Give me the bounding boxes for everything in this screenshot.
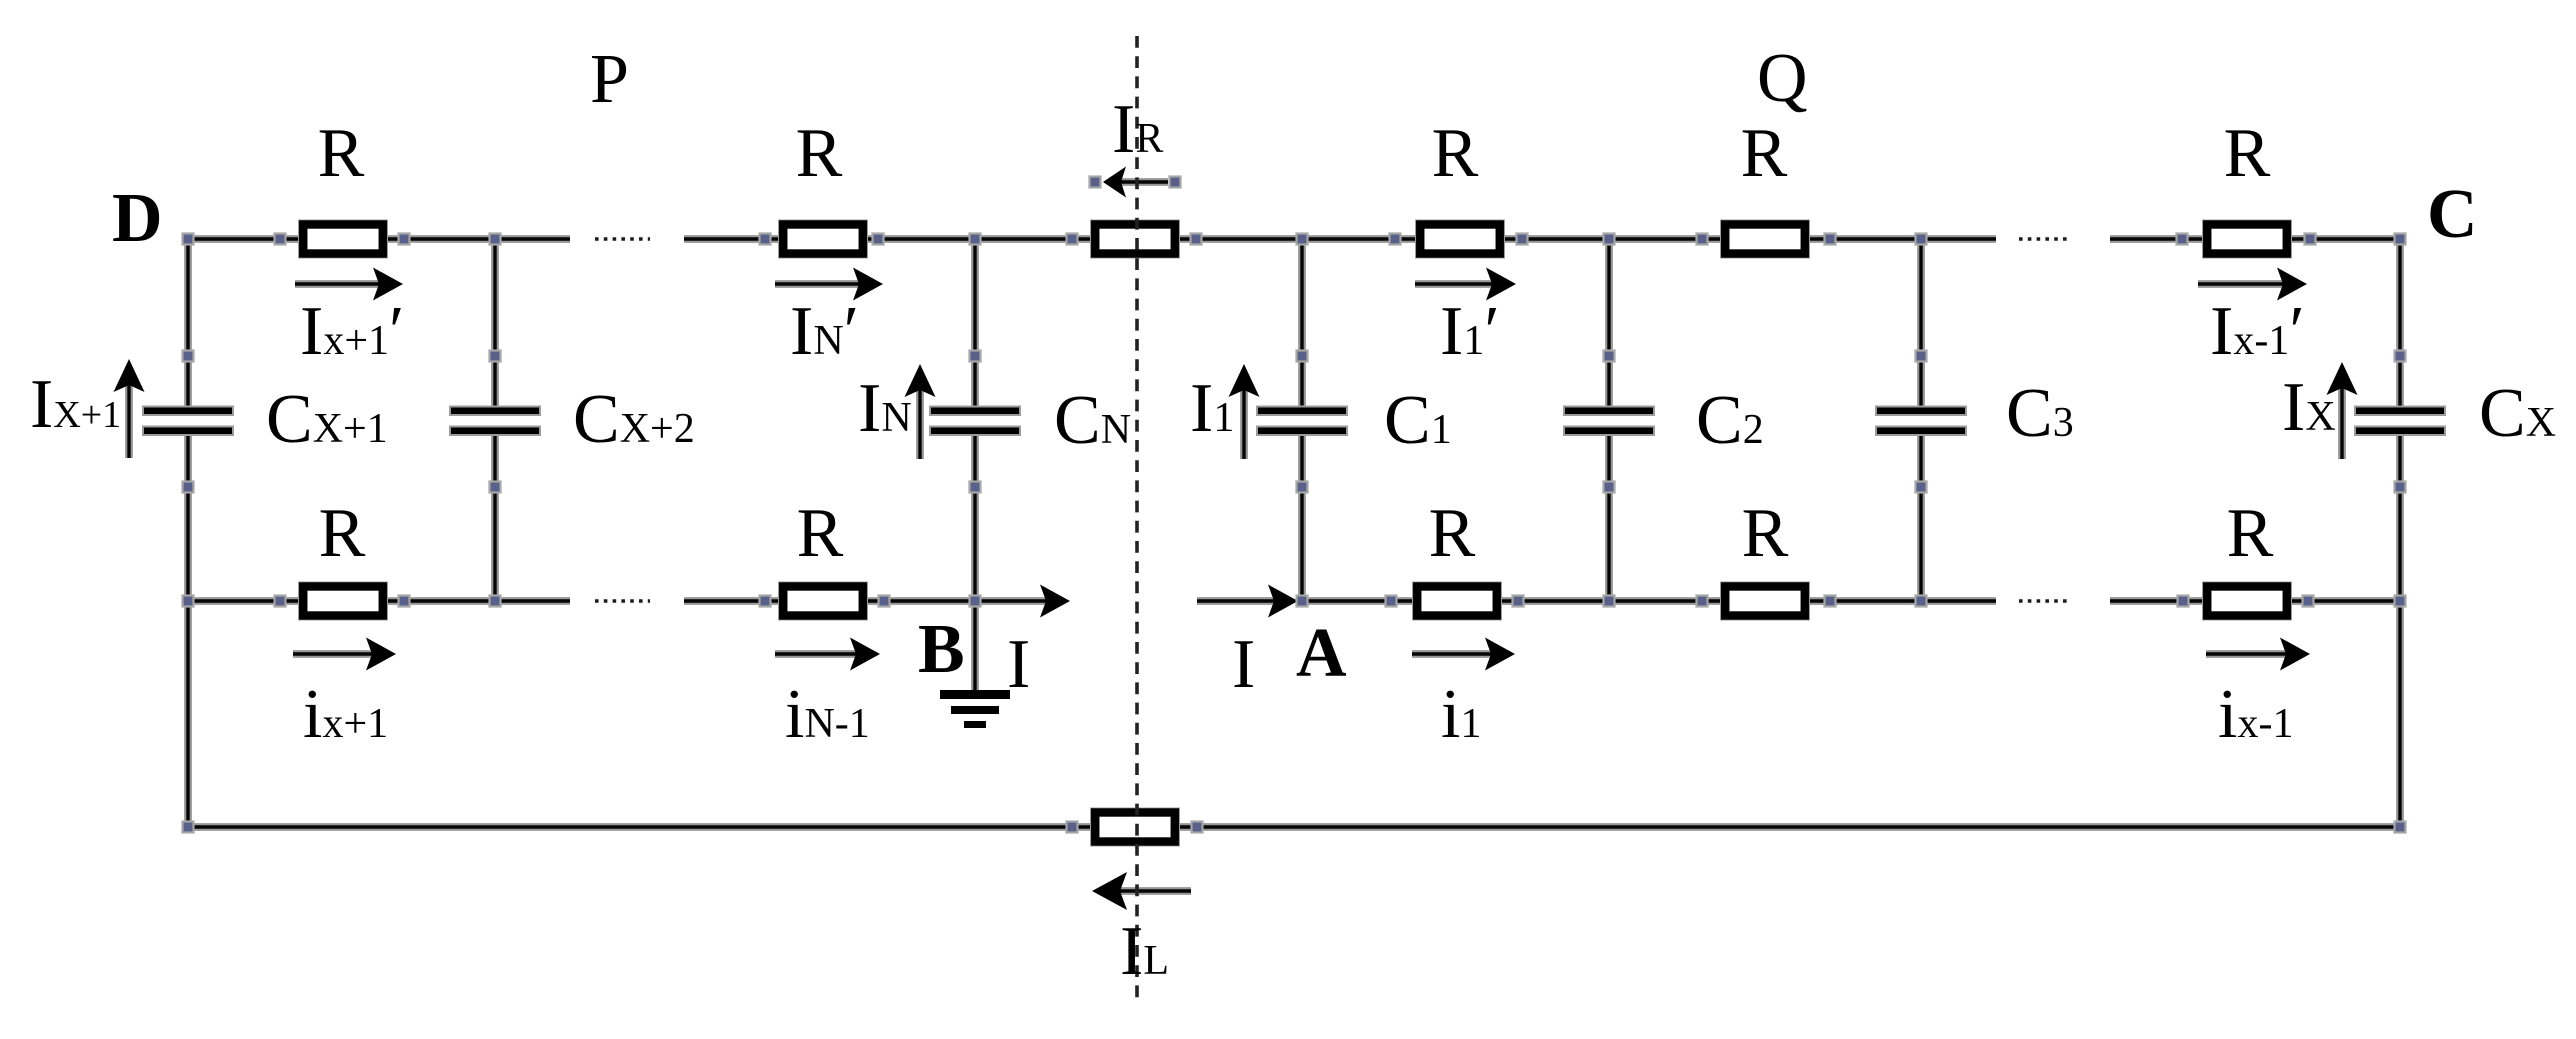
wire top rail mid section bbox=[684, 235, 1996, 243]
junction bottom rail node x=1302 bbox=[1297, 596, 1308, 607]
svg-text:IN′: IN′ bbox=[790, 293, 859, 370]
junction bottom rail node x=1518 bbox=[1513, 596, 1524, 607]
svg-text:CX+2: CX+2 bbox=[573, 381, 695, 458]
svg-text:B: B bbox=[918, 611, 965, 688]
junction bottom rail node x=2183 bbox=[2178, 596, 2189, 607]
svg-text:C3: C3 bbox=[2006, 375, 2074, 452]
svg-text:C2: C2 bbox=[1696, 382, 1764, 459]
svg-text:C: C bbox=[2427, 176, 2478, 253]
junction capacitor top node x=975 bbox=[970, 351, 981, 362]
wire node B ground stem bbox=[971, 601, 979, 692]
resistor R bottom-3 bbox=[1413, 583, 1501, 620]
current arrow ix+1 bbox=[293, 638, 396, 671]
wire C column lower bbox=[2396, 430, 2404, 827]
wire top rail continuation right (dotted continuation) bbox=[2019, 237, 2071, 240]
junction bottom rail node x=1921 bbox=[1916, 596, 1927, 607]
current arrow I1 bbox=[1229, 364, 1260, 459]
svg-text:I: I bbox=[1007, 626, 1030, 703]
capacitor capacitor CX bbox=[2355, 407, 2445, 436]
junction bottom rail node x=975 bbox=[970, 596, 981, 607]
junction bottom rail node x=1830 bbox=[1825, 596, 1836, 607]
junction capacitor bottom node x=975 bbox=[970, 482, 981, 493]
junction top rail node x=878 bbox=[873, 234, 884, 245]
capacitor capacitor CX+2 bbox=[450, 407, 540, 436]
svg-text:R: R bbox=[1742, 495, 1789, 572]
svg-text:I: I bbox=[1232, 626, 1255, 703]
junction top rail node x=188 bbox=[183, 234, 194, 245]
junction bottom rail node x=1609 bbox=[1604, 596, 1615, 607]
current arrow IN' bbox=[775, 268, 883, 301]
junction return wire node x=1072 bbox=[1067, 822, 1078, 833]
wire C2 column lower bbox=[1605, 430, 1613, 601]
wire CN column upper bbox=[971, 239, 979, 412]
wire top rail D to first gap bbox=[188, 235, 570, 243]
svg-text:R: R bbox=[318, 115, 365, 192]
current arrow IR (points left) bbox=[1103, 167, 1168, 198]
resistor R bottom-2 bbox=[779, 583, 867, 620]
junction top rail node x=1395 bbox=[1390, 234, 1401, 245]
svg-text:R: R bbox=[2227, 495, 2274, 572]
svg-text:ix+1: ix+1 bbox=[303, 676, 388, 753]
junction capacitor top node x=2400 bbox=[2395, 351, 2406, 362]
wire C column upper bbox=[2396, 239, 2404, 412]
svg-text:C1: C1 bbox=[1384, 382, 1452, 459]
capacitor capacitor CX+1 bbox=[143, 407, 233, 436]
junction capacitor bottom node x=1302 bbox=[1297, 482, 1308, 493]
wire bottom rail right section bbox=[2110, 597, 2400, 605]
svg-text:A: A bbox=[1296, 615, 1347, 692]
junction bottom rail node x=188 bbox=[183, 596, 194, 607]
wire top rail continuation P (dotted continuation) bbox=[595, 237, 650, 240]
ground at node B bbox=[940, 690, 1010, 728]
junction top rail node x=1609 bbox=[1604, 234, 1615, 245]
resistor R bottom-1 bbox=[299, 583, 387, 620]
resistor R bottom-5 bbox=[2203, 583, 2291, 620]
wire bottom rail continuation left (dotted continuation) bbox=[595, 599, 650, 602]
wire D column upper bbox=[184, 239, 192, 412]
current arrow IN bbox=[905, 364, 936, 459]
wire return wire bottom left bbox=[188, 823, 1092, 831]
junction bottom rail node x=280 bbox=[275, 596, 286, 607]
wire bottom rail to node B bbox=[684, 597, 975, 605]
svg-text:R: R bbox=[319, 495, 366, 572]
junction capacitor bottom node x=495 bbox=[490, 482, 501, 493]
junction return wire node x=2400 bbox=[2395, 822, 2406, 833]
junction capacitor bottom node x=2400 bbox=[2395, 482, 2406, 493]
resistor R return (IL) bbox=[1091, 809, 1179, 846]
current arrow IL (points left) bbox=[1092, 872, 1191, 910]
svg-text:D: D bbox=[112, 180, 163, 257]
capacitor capacitor C1 bbox=[1257, 407, 1347, 436]
dashed symmetry axis bbox=[1135, 36, 1139, 1002]
svg-text:I1′: I1′ bbox=[1440, 293, 1500, 370]
svg-text:CX+1: CX+1 bbox=[266, 381, 388, 458]
current arrow Ix+1' bbox=[295, 268, 403, 301]
svg-text:CX: CX bbox=[2479, 375, 2556, 452]
junction capacitor top node x=1302 bbox=[1297, 351, 1308, 362]
wire bottom rail left section bbox=[188, 597, 570, 605]
wire C2 column upper bbox=[1605, 239, 1613, 412]
wire C3 column upper bbox=[1917, 239, 1925, 412]
wire D column lower bbox=[184, 430, 192, 827]
junction IR arrow left handle bbox=[1090, 177, 1101, 188]
current arrow ix-1 bbox=[2206, 638, 2310, 671]
svg-text:R: R bbox=[2224, 115, 2271, 192]
junction bottom rail node x=765 bbox=[760, 596, 771, 607]
wire bottom rail A to right gap bbox=[1302, 597, 1996, 605]
junction bottom rail node x=404 bbox=[399, 596, 410, 607]
wire bottom rail continuation right (dotted continuation) bbox=[2019, 599, 2071, 602]
resistor R top-middle (IR) bbox=[1091, 221, 1179, 258]
junction top rail node x=1921 bbox=[1916, 234, 1927, 245]
svg-text:Q: Q bbox=[1757, 40, 1808, 117]
svg-text:IN: IN bbox=[858, 370, 912, 447]
junction bottom rail node x=1702 bbox=[1697, 596, 1708, 607]
svg-text:i1: i1 bbox=[1441, 676, 1481, 753]
wire top rail right section bbox=[2110, 235, 2400, 243]
junction top rail node x=495 bbox=[490, 234, 501, 245]
junction top rail node x=975 bbox=[970, 234, 981, 245]
junction top rail node x=1702 bbox=[1697, 234, 1708, 245]
wire C1 column upper bbox=[1298, 239, 1306, 412]
junction top rail node x=1302 bbox=[1297, 234, 1308, 245]
junction top rail node x=2182 bbox=[2177, 234, 2188, 245]
resistor R top-3 bbox=[1416, 221, 1504, 258]
svg-text:Ix+1′: Ix+1′ bbox=[300, 293, 404, 370]
resistor R top-2 bbox=[779, 221, 867, 258]
capacitor capacitor C2 bbox=[1564, 407, 1654, 436]
junction top rail node x=1830 bbox=[1825, 234, 1836, 245]
current arrow i1 bbox=[1412, 638, 1515, 671]
junction return wire node x=188 bbox=[183, 822, 194, 833]
svg-text:R: R bbox=[797, 495, 844, 572]
resistor R top-4 bbox=[1721, 221, 1809, 258]
junction capacitor top node x=188 bbox=[183, 351, 194, 362]
svg-text:IX: IX bbox=[2282, 369, 2336, 446]
svg-text:R: R bbox=[1432, 115, 1479, 192]
wire return wire bottom right bbox=[1178, 823, 2400, 831]
junction bottom rail node x=2308 bbox=[2303, 596, 2314, 607]
junction bottom rail node x=884 bbox=[879, 596, 890, 607]
junction top rail node x=1196 bbox=[1191, 234, 1202, 245]
junction bottom rail node x=2400 bbox=[2395, 596, 2406, 607]
junction top rail node x=2310 bbox=[2305, 234, 2316, 245]
junction capacitor top node x=495 bbox=[490, 351, 501, 362]
wire CN column lower bbox=[971, 430, 979, 601]
junction return wire node x=1197 bbox=[1192, 822, 1203, 833]
wire CX+2 column upper bbox=[491, 239, 499, 412]
wire CX+2 column lower bbox=[491, 430, 499, 601]
junction capacitor top node x=1609 bbox=[1604, 351, 1615, 362]
junction capacitor bottom node x=1921 bbox=[1916, 482, 1927, 493]
junction top rail node x=280 bbox=[275, 234, 286, 245]
capacitor capacitor CN bbox=[930, 407, 1020, 436]
current arrow I at node B bbox=[975, 585, 1070, 618]
junction top rail node x=765 bbox=[760, 234, 771, 245]
junction top rail node x=404 bbox=[399, 234, 410, 245]
svg-text:ix-1: ix-1 bbox=[2218, 676, 2293, 753]
wire C3 column lower bbox=[1917, 430, 1925, 601]
current arrow I1' bbox=[1415, 268, 1516, 301]
current arrow IX bbox=[2327, 362, 2358, 459]
capacitor capacitor C3 bbox=[1876, 407, 1966, 436]
junction bottom rail node x=1391 bbox=[1386, 596, 1397, 607]
junction top rail node x=2400 bbox=[2395, 234, 2406, 245]
resistor R top-1 bbox=[299, 221, 387, 258]
current arrow Ix-1' bbox=[2198, 268, 2307, 301]
svg-text:IL: IL bbox=[1120, 913, 1169, 990]
svg-text:IX+1: IX+1 bbox=[30, 366, 121, 443]
junction top rail node x=1072 bbox=[1067, 234, 1078, 245]
resistor R bottom-4 bbox=[1721, 583, 1809, 620]
junction bottom rail node x=495 bbox=[490, 596, 501, 607]
current arrow I into node A bbox=[1197, 585, 1298, 618]
junction capacitor bottom node x=188 bbox=[183, 482, 194, 493]
svg-text:P: P bbox=[590, 41, 629, 118]
junction IR arrow right handle bbox=[1170, 177, 1181, 188]
current arrow IX+1 bbox=[114, 359, 145, 458]
svg-text:R: R bbox=[1429, 495, 1476, 572]
wire C1 column lower bbox=[1298, 430, 1306, 601]
svg-text:R: R bbox=[796, 115, 843, 192]
junction capacitor top node x=1921 bbox=[1916, 351, 1927, 362]
junction capacitor bottom node x=1609 bbox=[1604, 482, 1615, 493]
svg-text:iN-1: iN-1 bbox=[785, 676, 870, 753]
svg-text:R: R bbox=[1741, 115, 1788, 192]
current arrow iN-1 bbox=[775, 638, 880, 671]
resistor R top-5 bbox=[2203, 221, 2291, 258]
svg-text:I1: I1 bbox=[1190, 370, 1234, 447]
svg-text:CN: CN bbox=[1054, 382, 1131, 459]
junction top rail node x=1522 bbox=[1517, 234, 1528, 245]
svg-text:Ix-1′: Ix-1′ bbox=[2210, 293, 2305, 370]
